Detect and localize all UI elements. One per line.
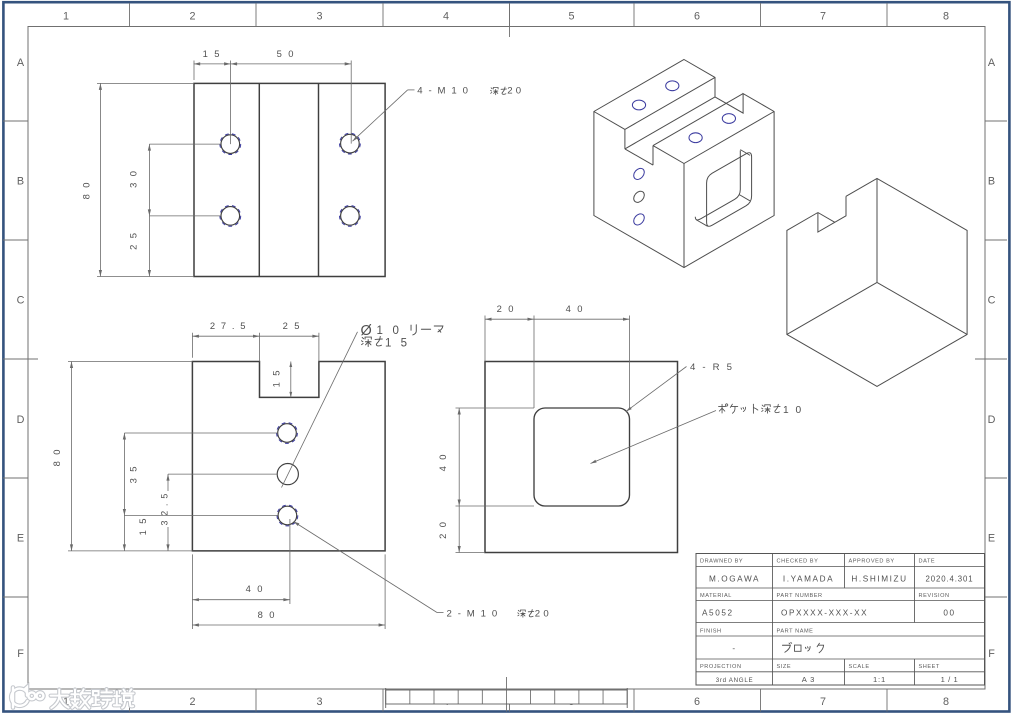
- leader 2-M10: [294, 522, 438, 613]
- svg-text:F: F: [988, 648, 995, 660]
- svg-text:7: 7: [820, 11, 826, 23]
- svg-text:B: B: [988, 176, 995, 188]
- svg-text:20: 20: [535, 609, 552, 620]
- svg-text:1:1: 1:1: [873, 675, 886, 684]
- iso view 1 top holes (4-M10): [666, 81, 679, 91]
- iso view 2 silhouette with slot notch: [787, 178, 967, 386]
- svg-text:2 0: 2 0: [497, 303, 516, 314]
- front view hole M10 top: [278, 424, 297, 443]
- svg-text:I.YAMADA: I.YAMADA: [783, 575, 834, 584]
- svg-text:PROJECTION: PROJECTION: [700, 664, 742, 670]
- leader pocket depth: [591, 411, 717, 464]
- svg-text:6: 6: [694, 696, 700, 708]
- svg-text:2020.4.301: 2020.4.301: [925, 575, 973, 584]
- svg-text:H.SHIMIZU: H.SHIMIZU: [851, 575, 907, 584]
- title block frame: [696, 554, 985, 686]
- top view slot edge right: [318, 83, 320, 276]
- top view hole M10 #3: [221, 207, 240, 226]
- dim 80 (top view left): [99, 83, 101, 276]
- svg-text:8: 8: [943, 11, 949, 23]
- svg-text:1 5: 1 5: [203, 48, 222, 59]
- svg-text:MATERIAL: MATERIAL: [700, 593, 732, 599]
- svg-text:3 0: 3 0: [128, 169, 139, 188]
- dim 27.5 (front view): [192, 335, 259, 337]
- svg-text:SCALE: SCALE: [849, 664, 870, 670]
- svg-text:FINISH: FINISH: [700, 629, 722, 635]
- dim 80 (front view bottom): [192, 624, 385, 626]
- iso view 2 notch: [818, 196, 846, 232]
- svg-text:D: D: [988, 414, 996, 426]
- iso view 1 slot lines: [625, 77, 715, 129]
- svg-text:3: 3: [316, 696, 322, 708]
- side view outline: [485, 362, 678, 553]
- svg-text:A: A: [988, 57, 996, 69]
- top view slot edge left: [258, 83, 260, 276]
- pocket outline (rounded): [534, 408, 630, 506]
- svg-text:4: 4: [443, 11, 449, 23]
- svg-text:3: 3: [316, 11, 322, 23]
- svg-text:CHECKED BY: CHECKED BY: [777, 559, 819, 565]
- dim 20 (side view top): [485, 318, 534, 320]
- hole connector lines (front view): [124, 432, 277, 434]
- svg-text:C: C: [988, 295, 996, 307]
- svg-text:2 5: 2 5: [283, 320, 302, 331]
- dim 35 (front view): [123, 433, 125, 516]
- svg-text:1: 1: [63, 11, 69, 23]
- svg-text:DRAWNED BY: DRAWNED BY: [700, 559, 743, 565]
- svg-text:2 5: 2 5: [128, 231, 139, 250]
- svg-text:F: F: [17, 648, 24, 660]
- leader dia10 reamer: [282, 332, 358, 488]
- svg-text:20: 20: [507, 86, 524, 97]
- svg-text:A5052: A5052: [702, 609, 734, 618]
- svg-text:5 0: 5 0: [277, 48, 296, 59]
- svg-text:1 0: 1 0: [783, 405, 803, 416]
- svg-text:1 / 1: 1 / 1: [941, 675, 959, 684]
- dim 20 (side view left): [458, 506, 460, 553]
- front view outline with slot notch: [192, 362, 385, 551]
- iso view 1 pocket on right face: [707, 153, 752, 227]
- dim 50 (top view): [231, 63, 352, 65]
- svg-text:OPXXXX-XXX-XX: OPXXXX-XXX-XX: [781, 609, 868, 618]
- dim 15 (slot depth, front view): [290, 362, 292, 398]
- svg-text:D: D: [17, 414, 25, 426]
- svg-text:8 0: 8 0: [81, 181, 92, 200]
- svg-text:3 2 . 5: 3 2 . 5: [160, 493, 170, 526]
- front view reamed hole: [277, 464, 298, 485]
- dim 25 (front view): [260, 335, 319, 337]
- iso view 1 silhouette: [594, 60, 774, 268]
- svg-text:7: 7: [820, 696, 826, 708]
- svg-text:E: E: [17, 533, 24, 545]
- top view hole M10 #1: [221, 135, 240, 154]
- svg-text:2 0: 2 0: [437, 520, 448, 539]
- iso view 2 internal edges: [876, 178, 878, 282]
- dim 40 (front view bottom): [192, 599, 290, 601]
- zone grid ticks and labels: [129, 3, 131, 27]
- centering marks: [509, 3, 511, 37]
- dim 30 (top view): [148, 144, 150, 216]
- svg-text:PART NAME: PART NAME: [777, 629, 814, 635]
- svg-text:2 7 . 5: 2 7 . 5: [210, 320, 247, 331]
- iso view 1 left-face holes: [632, 166, 647, 181]
- svg-text:4 - R 5: 4 - R 5: [690, 362, 734, 373]
- top view hole M10 #2: [341, 134, 360, 153]
- dim 15 (top view): [194, 63, 231, 65]
- leader 4-M10: [353, 90, 408, 141]
- svg-text:1 5: 1 5: [137, 517, 148, 536]
- svg-text:A 3: A 3: [802, 675, 815, 684]
- dim 25 (top view): [148, 216, 150, 277]
- comparison scale bar: [386, 690, 628, 704]
- svg-text:B: B: [17, 176, 24, 188]
- svg-text:6: 6: [694, 11, 700, 23]
- dim 15 (front view bottom-left): [123, 516, 125, 551]
- svg-text:8 0: 8 0: [258, 609, 277, 620]
- dim 32.5 (front view): [167, 474, 169, 491]
- svg-text:2: 2: [189, 696, 195, 708]
- svg-text:E: E: [988, 533, 995, 545]
- svg-text:APPROVED BY: APPROVED BY: [849, 559, 895, 565]
- svg-text:REVISION: REVISION: [919, 593, 950, 599]
- svg-text:4 0: 4 0: [566, 303, 585, 314]
- watermark logo: [11, 687, 43, 707]
- dim 80 (front view left): [71, 362, 73, 551]
- svg-text:SIZE: SIZE: [777, 664, 792, 670]
- svg-text:PART NUMBER: PART NUMBER: [777, 593, 823, 599]
- watermark text: [51, 690, 69, 708]
- svg-text:3rd ANGLE: 3rd ANGLE: [716, 677, 754, 684]
- svg-text:4 0: 4 0: [246, 583, 265, 594]
- svg-text:C: C: [17, 295, 25, 307]
- svg-text:DATE: DATE: [919, 559, 936, 565]
- dim 40 (side view left): [458, 408, 460, 506]
- svg-text:1 5: 1 5: [271, 369, 282, 388]
- svg-text:4 - M 1 0: 4 - M 1 0: [417, 86, 469, 97]
- svg-text:8: 8: [943, 696, 949, 708]
- svg-text:M.OGAWA: M.OGAWA: [709, 575, 760, 584]
- iso view 1 internal edges: [684, 112, 774, 164]
- svg-text:4 0: 4 0: [437, 453, 448, 472]
- svg-text:3 5: 3 5: [128, 465, 139, 484]
- svg-text:5: 5: [568, 11, 574, 23]
- svg-text:SHEET: SHEET: [919, 664, 940, 670]
- top view hole M10 #4: [341, 207, 360, 226]
- leader 4-R5: [626, 367, 687, 412]
- top view outline: [194, 83, 385, 276]
- svg-text:1 0: 1 0: [377, 325, 403, 337]
- dim 40 (side view top): [534, 318, 630, 320]
- title block vertical dividers: [772, 554, 774, 589]
- svg-text:1 5: 1 5: [385, 338, 410, 350]
- svg-text:-: -: [732, 644, 736, 653]
- svg-text:A: A: [17, 57, 25, 69]
- svg-text:2 - M 1 0: 2 - M 1 0: [447, 609, 499, 620]
- svg-text:00: 00: [943, 609, 955, 618]
- svg-text:2: 2: [189, 11, 195, 23]
- svg-text:8 0: 8 0: [51, 448, 62, 467]
- front view hole M10 bottom: [278, 506, 297, 525]
